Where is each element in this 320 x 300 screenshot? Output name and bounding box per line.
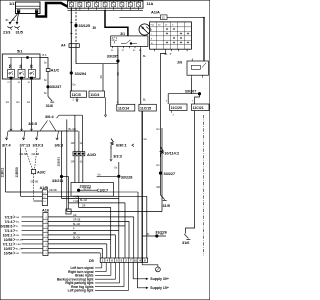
svg-text:3/6:5: 3/6:5 [28, 122, 37, 126]
svg-text:Y-GR: Y-GR [73, 197, 79, 199]
svg-text:3/7:13: 3/7:13 [20, 143, 31, 147]
svg-text:Supply 15+: Supply 15+ [150, 286, 169, 290]
svg-text:7/1:12: 7/1:12 [3, 242, 13, 246]
svg-text:GR: GR [156, 186, 160, 189]
svg-text:11C/4: 11C/4 [90, 93, 99, 97]
svg-text:31/5: 31/5 [16, 31, 23, 35]
svg-text:31/5: 31/5 [163, 204, 170, 208]
svg-text:11A: 11A [147, 2, 154, 6]
svg-text:5/1: 5/1 [17, 48, 23, 53]
svg-text:33/228: 33/228 [121, 176, 133, 180]
svg-text:GR-SB: GR-SB [73, 220, 81, 222]
svg-text:2/6: 2/6 [177, 60, 182, 64]
svg-text:Gn: Gn [16, 101, 20, 104]
svg-text:A1/D: A1/D [87, 152, 96, 157]
svg-text:56: 56 [8, 64, 12, 68]
svg-text:3/3:3: 3/3:3 [113, 154, 122, 158]
svg-text:11B/21: 11B/21 [56, 157, 60, 167]
svg-text:33/125: 33/125 [79, 24, 91, 28]
svg-text:GR: GR [16, 253, 20, 255]
svg-text:6/30:1: 6/30:1 [116, 144, 127, 148]
svg-text:11C/3: 11C/3 [72, 93, 81, 97]
svg-text:10/57: 10/57 [4, 247, 13, 251]
svg-text:11C/14: 11C/14 [118, 106, 129, 110]
svg-text:GR-SB: GR-SB [49, 189, 57, 192]
svg-text:A1/C: A1/C [51, 68, 60, 72]
svg-text:SB: SB [73, 233, 77, 235]
svg-text:GR: GR [73, 215, 77, 217]
svg-text:GA: GA [16, 216, 20, 219]
svg-text:10/188:6: 10/188:6 [0, 224, 13, 228]
svg-text:Gn: Gn [6, 101, 10, 104]
svg-text:A4: A4 [61, 44, 65, 48]
svg-text:33/294: 33/294 [75, 72, 88, 76]
svg-text:A3/C: A3/C [37, 170, 46, 174]
svg-text:31/6: 31/6 [182, 241, 189, 245]
svg-text:Pos: Pos [151, 25, 155, 27]
svg-text:GR-SB: GR-SB [20, 153, 28, 156]
svg-text:3/6:4: 3/6:4 [45, 115, 55, 119]
svg-text:BL-GR: BL-GR [84, 188, 91, 190]
svg-text:BL-GR: BL-GR [80, 200, 87, 202]
svg-text:7/1:3: 7/1:3 [5, 229, 13, 233]
svg-text:33/227: 33/227 [164, 172, 176, 176]
svg-text:GR: GR [71, 142, 75, 145]
svg-text:D5: D5 [89, 259, 94, 263]
svg-text:A1/A: A1/A [151, 10, 160, 15]
svg-text:A1/B: A1/B [40, 186, 49, 190]
svg-text:GR: GR [71, 161, 75, 164]
svg-text:33/211: 33/211 [52, 179, 63, 183]
svg-text:SB: SB [100, 75, 103, 79]
svg-text:10/55: 10/55 [4, 238, 13, 242]
svg-text:BL-GN: BL-GN [73, 238, 80, 240]
svg-text:3/7:4: 3/7:4 [2, 143, 12, 147]
svg-text:A16: A16 [42, 209, 49, 213]
svg-text:7/1:4: 7/1:4 [5, 220, 13, 224]
svg-text:SB: SB [117, 72, 120, 76]
svg-text:GR-SB: GR-SB [32, 153, 40, 156]
svg-text:7/1:8: 7/1:8 [5, 215, 13, 219]
svg-text:11C/15: 11C/15 [140, 106, 151, 110]
svg-text:Y-GR: Y-GR [73, 201, 79, 203]
svg-text:10/114:2: 10/114:2 [164, 151, 179, 155]
svg-text:GR-SB: GR-SB [31, 180, 39, 183]
svg-text:54: 54 [19, 64, 23, 68]
svg-text:33/237: 33/237 [50, 85, 62, 89]
svg-text:11B/11: 11B/11 [0, 167, 4, 177]
svg-text:10/54: 10/54 [4, 251, 13, 255]
svg-text:33/207: 33/207 [185, 90, 197, 94]
svg-text:30: 30 [93, 26, 97, 30]
svg-text:33/295: 33/295 [107, 55, 119, 59]
svg-text:31/6: 31/6 [46, 104, 53, 108]
svg-text:B.S: B.S [43, 54, 47, 57]
svg-text:Left parking light: Left parking light [68, 289, 95, 293]
svg-text:30: 30 [112, 39, 114, 41]
svg-text:11C/20: 11C/20 [171, 106, 182, 110]
svg-text:GR: GR [16, 235, 20, 237]
svg-text:Gn: Gn [27, 101, 31, 104]
svg-text:21/3: 21/3 [3, 31, 10, 35]
svg-text:Supply 30+: Supply 30+ [150, 277, 169, 281]
svg-text:11B/50: 11B/50 [15, 167, 19, 177]
svg-text:3/6:3: 3/6:3 [55, 143, 64, 147]
svg-text:3/10:3: 3/10:3 [33, 143, 44, 147]
svg-text:11C/21: 11C/21 [193, 106, 204, 110]
svg-text:BL-GR: BL-GR [69, 128, 77, 131]
svg-text:GR: GR [82, 206, 86, 208]
svg-text:BL-GR: BL-GR [73, 224, 80, 226]
svg-text:10/3:1: 10/3:1 [3, 233, 13, 237]
svg-text:Y-BR: Y-BR [16, 244, 21, 246]
svg-text:1/1: 1/1 [9, 1, 15, 6]
